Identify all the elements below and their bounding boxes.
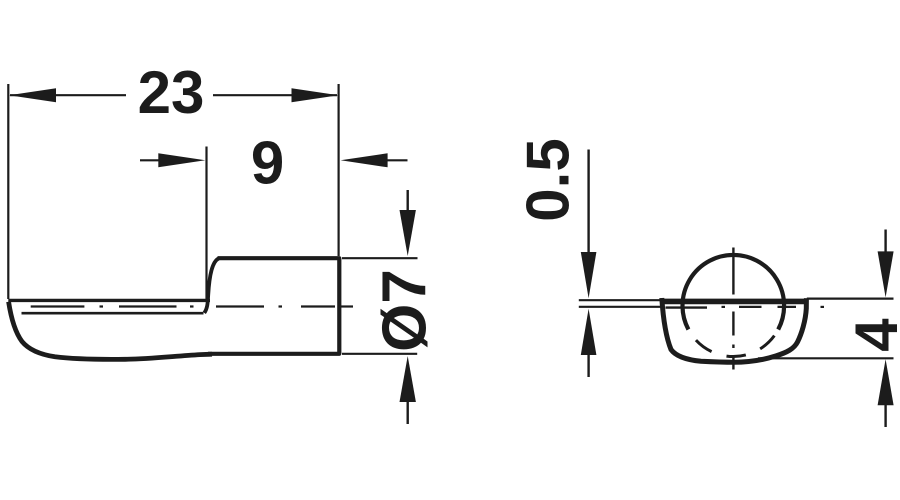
side view centerline dash-dot xyxy=(31,305,353,307)
end view plate strip bottom line xyxy=(579,306,662,308)
extension line left (23 dim) xyxy=(7,84,9,299)
arrowhead 9 left xyxy=(158,153,205,167)
extension line 4 bottom xyxy=(758,357,894,359)
extension line diameter top xyxy=(342,257,418,259)
dimension line 23 right segment xyxy=(213,94,337,96)
arrow diameter down tail xyxy=(407,190,409,213)
svg-text:Ø7: Ø7 xyxy=(371,269,440,352)
arrowhead 23 right xyxy=(292,88,339,102)
end view rim inner line xyxy=(666,306,708,308)
end view bowl outline xyxy=(662,298,807,362)
end view rim bar xyxy=(661,299,807,305)
dimension line 9 left tail xyxy=(140,159,160,161)
extension line step (9 dim) xyxy=(205,147,207,303)
dimension 4 up tail xyxy=(884,405,886,427)
side view plate top edge xyxy=(8,299,210,302)
end view vertical centerline segments xyxy=(732,248,734,370)
arrowhead 4 down xyxy=(878,251,894,297)
dimension line 9 right tail xyxy=(387,159,408,161)
dimension 0.5 line lower tail xyxy=(587,355,589,377)
arrowhead 0.5 down xyxy=(581,252,597,298)
side view cylinder outline xyxy=(208,258,339,354)
dimension 0.5 line upper xyxy=(587,150,589,253)
dimension line 23 left segment xyxy=(10,94,126,96)
end view circle solid arc xyxy=(683,255,785,330)
arrowhead diameter up xyxy=(400,356,416,402)
svg-text:4: 4 xyxy=(843,318,900,352)
svg-text:9: 9 xyxy=(251,130,284,197)
arrow diameter up tail xyxy=(407,401,409,424)
extension line right (23/9 dim) xyxy=(338,84,340,256)
side view step fillet xyxy=(204,258,219,313)
extension line diameter bottom xyxy=(342,353,417,355)
end view horizontal centerline segments xyxy=(722,306,825,308)
dimension 4 down tail xyxy=(884,230,886,254)
arrowhead 23 left xyxy=(9,88,56,102)
side view bowl bottom curve xyxy=(9,302,212,360)
extension line 4 top xyxy=(807,298,894,300)
end view circle hidden bottom arc dashed xyxy=(688,330,778,357)
arrowhead 0.5 up xyxy=(581,309,597,355)
svg-text:23: 23 xyxy=(138,59,205,126)
end view plate strip top line xyxy=(579,299,662,301)
arrowhead diameter down xyxy=(400,210,416,256)
side view bowl rim inner line xyxy=(22,312,204,315)
svg-text:0.5: 0.5 xyxy=(515,138,582,221)
arrowhead 4 up xyxy=(878,359,894,405)
arrowhead 9 right xyxy=(341,153,388,167)
